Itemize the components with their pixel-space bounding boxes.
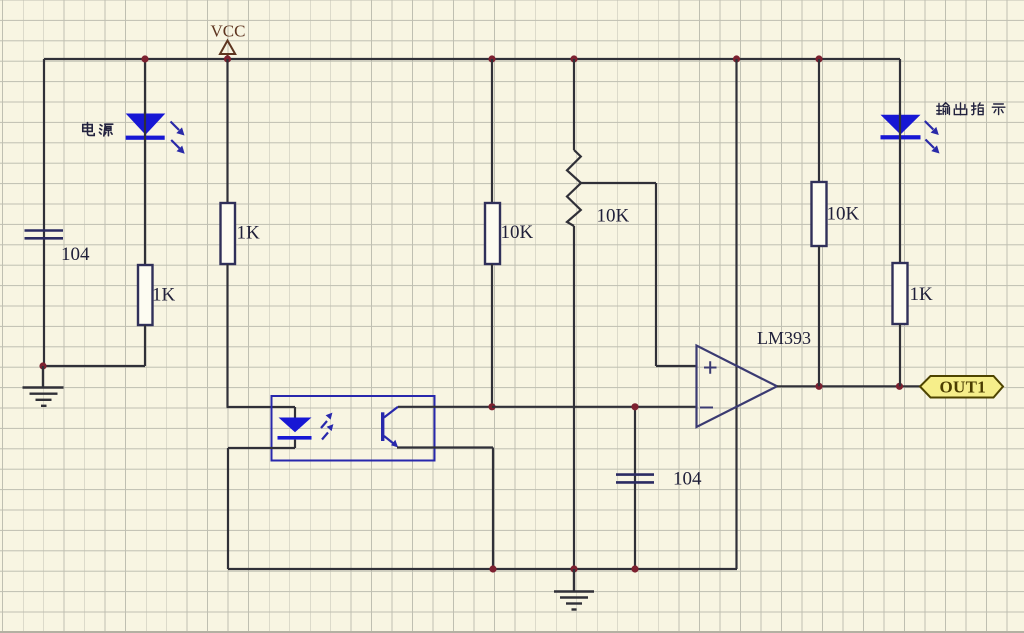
- wire optocoupler LED cathode to bottom rail: [228, 440, 295, 569]
- LED D2 output indicator: [881, 115, 921, 140]
- resistor R1 1K body: [221, 203, 236, 264]
- svg-text:104: 104: [61, 244, 90, 265]
- node R4 output junction: [815, 383, 822, 390]
- wire top VCC rail: [44, 58, 900, 60]
- wire R5 to output rail: [899, 324, 901, 386]
- op-amp U1 LM393 triangle: [697, 346, 778, 428]
- wire left column down to capacitor: [43, 59, 45, 366]
- potentiometer RP1 10K zigzag: [567, 150, 581, 226]
- wire VCC to R1: [226, 59, 228, 203]
- wire capacitor to ground node: [43, 365, 145, 367]
- capacitor C1 104: [25, 231, 64, 239]
- wire op-amp power column: [735, 59, 737, 569]
- label 电源 (power): [83, 123, 113, 136]
- optocoupler LED: [278, 418, 312, 440]
- wire pot bottom to ground rail: [573, 226, 575, 569]
- wire R3 to inverting node: [491, 264, 493, 407]
- node R3 top junction: [488, 55, 495, 62]
- wire bottom ground rail: [228, 568, 737, 570]
- node R4 top junction: [815, 55, 822, 62]
- node VCC junction: [224, 55, 231, 62]
- optocoupler U2 box: [272, 396, 435, 461]
- label 输出指示 (output indicator): [937, 103, 1005, 115]
- wire pot wiper to op-amp non-inverting input: [581, 183, 696, 366]
- svg-text:OUT1: OUT1: [940, 378, 987, 397]
- svg-text:10K: 10K: [597, 206, 630, 227]
- svg-text:1K: 1K: [152, 285, 176, 306]
- wire transistor collector to inverting node: [398, 406, 492, 408]
- node LED1 junction: [141, 55, 148, 62]
- wire top rail to LED2: [899, 59, 901, 115]
- resistor R2 1K body: [138, 265, 153, 325]
- node op-amp power top junction: [733, 55, 740, 62]
- LED D1 power indicator: [126, 114, 166, 140]
- wire op-amp output rail: [777, 385, 920, 387]
- wire LED2 to R5: [899, 113, 901, 263]
- capacitor C2 104: [616, 475, 654, 483]
- wire R4 top: [818, 59, 820, 182]
- port OUT1 flag: [920, 376, 1003, 398]
- resistor R4 10K body: [812, 182, 827, 246]
- optocoupler emission arrows: [321, 413, 333, 440]
- node C2 bottom junction: [631, 565, 638, 572]
- power VCC symbol: [220, 41, 235, 60]
- ground GND middle: [554, 569, 594, 610]
- node potentiometer top junction: [570, 55, 577, 62]
- svg-text:10K: 10K: [501, 222, 534, 243]
- svg-text:104: 104: [673, 469, 702, 490]
- svg-text:VCC: VCC: [211, 22, 246, 41]
- node pot ground junction: [570, 565, 577, 572]
- resistor R3 10K body: [485, 203, 500, 264]
- wire LED1 column top: [144, 59, 146, 114]
- LED D2 emission arrows: [925, 121, 940, 154]
- wire LED1 to R2: [144, 112, 146, 265]
- wire pot top: [573, 59, 575, 150]
- node C2 top junction: [631, 403, 638, 410]
- op-amp plus pin mark: [704, 361, 717, 373]
- svg-text:1K: 1K: [910, 284, 934, 305]
- node emitter bottom junction: [489, 565, 496, 572]
- wire R4 to output rail: [818, 246, 820, 386]
- svg-text:10K: 10K: [827, 204, 860, 225]
- svg-text:1K: 1K: [237, 223, 261, 244]
- optocoupler transistor Q1: [381, 407, 398, 448]
- svg-text:LM393: LM393: [757, 328, 811, 348]
- wire C2 top lead: [634, 407, 636, 569]
- op-amp minus pin mark: [700, 407, 713, 409]
- LED D1 emission arrows: [171, 122, 185, 154]
- node left ground junction: [39, 362, 46, 369]
- wire inverting node to op-amp: [492, 406, 696, 408]
- node inverting input junction: [488, 403, 495, 410]
- wire R3 top: [491, 59, 493, 203]
- wire R1 to optocoupler LED anode: [227, 264, 296, 418]
- resistor R5 1K body: [893, 263, 908, 324]
- wire transistor emitter to bottom rail: [397, 448, 493, 570]
- node R5 output junction: [896, 383, 903, 390]
- wire R2 to ground node: [144, 325, 146, 366]
- ground GND left: [23, 366, 64, 406]
